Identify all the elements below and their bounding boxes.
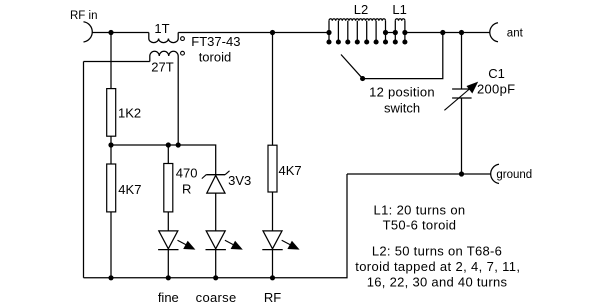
inductor L2 tapped coil: [329, 19, 386, 21]
label L2: [354, 2, 368, 17]
svg-text:16, 22, 30 and 40 turns: 16, 22, 30 and 40 turns: [367, 275, 508, 290]
junction rail LED fine: [166, 275, 171, 280]
junction middle 27T lead: [176, 142, 181, 147]
wire L1 to ant: [405, 32, 490, 34]
svg-text:toroid: toroid: [199, 50, 232, 65]
connector J3 ground: [491, 164, 499, 183]
svg-text:27T: 27T: [151, 60, 173, 75]
resistor R3 470R: [164, 145, 173, 231]
resistor R1 1K2: [107, 89, 116, 145]
svg-text:fine: fine: [158, 290, 179, 305]
junction C1 branch: [459, 30, 464, 35]
wire 4K7 RF branch down: [272, 33, 274, 146]
svg-text:T50-6 toroid: T50-6 toroid: [383, 218, 457, 233]
label C1 200pF: [477, 66, 515, 97]
svg-text:1K2: 1K2: [118, 106, 141, 121]
junction node input: [108, 30, 113, 35]
svg-text:200pF: 200pF: [477, 81, 515, 96]
wire junction down to R1: [110, 33, 112, 89]
svg-text:coarse: coarse: [196, 290, 237, 305]
switch contact tap 7: [383, 21, 388, 45]
svg-text:RF: RF: [264, 290, 281, 305]
resistor R2 4K7: [107, 145, 116, 278]
svg-text:C1: C1: [488, 66, 505, 81]
label RF in: [70, 10, 97, 22]
switch contact tap 2: [336, 21, 341, 45]
junction L1 left end: [393, 30, 398, 35]
svg-text:1T: 1T: [154, 21, 169, 36]
junction rail LED coarse: [213, 275, 218, 280]
svg-text:toroid tapped at 2, 4, 7, 11,: toroid tapped at 2, 4, 7, 11,: [355, 259, 520, 274]
label 4K7 left: [118, 182, 141, 197]
wire secondary right lead down: [177, 56, 179, 145]
wire left vertical rail: [83, 62, 85, 278]
svg-text:4K7: 4K7: [279, 163, 302, 178]
svg-text:ground: ground: [496, 169, 532, 181]
junction ground node: [459, 171, 464, 176]
labels fine coarse RF: [158, 290, 281, 305]
label 3V3: [228, 173, 251, 188]
svg-text:FT37-43: FT37-43: [191, 34, 240, 49]
svg-text:ant: ant: [507, 27, 524, 39]
svg-text:470: 470: [176, 166, 198, 181]
svg-text:12 position: 12 position: [369, 84, 435, 99]
inductor L1 coil: [395, 19, 405, 21]
label FT37-43 toroid: [191, 34, 240, 65]
svg-text:L1: L1: [392, 2, 406, 17]
label 12 position switch: [369, 84, 435, 115]
label 4K7 right: [279, 163, 302, 178]
junction L1 right end: [402, 30, 407, 35]
wire ground row: [347, 173, 491, 175]
switch contact tap 9: [402, 21, 407, 45]
junction node to 4K7 RF branch: [270, 30, 275, 35]
switch contact tap 1: [326, 21, 331, 45]
switch contact tap 3: [345, 21, 350, 45]
label 1T: [154, 21, 169, 36]
junction L2 right end: [383, 30, 388, 35]
switch contact tap 8: [393, 21, 398, 45]
switch contact tap 5: [364, 21, 369, 45]
wire secondary left lead: [84, 61, 150, 63]
svg-text:R: R: [182, 181, 191, 196]
svg-text:switch: switch: [384, 100, 420, 115]
label 27T: [151, 60, 173, 75]
wire L2 to L1: [386, 32, 396, 34]
svg-text:L2: 50 turns on T68-6: L2: 50 turns on T68-6: [372, 243, 502, 258]
junction L2 left end on wire: [326, 30, 331, 35]
svg-text:RF in: RF in: [70, 10, 97, 22]
label 470 R: [176, 166, 198, 197]
capacitor C1 variable: [444, 33, 478, 175]
switch SW1 rotor arm: [341, 55, 365, 82]
svg-text:L1: 20 turns on: L1: 20 turns on: [374, 202, 466, 217]
connector J1 RF in: [84, 22, 93, 42]
svg-text:L2: L2: [354, 2, 368, 17]
svg-text:3V3: 3V3: [228, 173, 251, 188]
label L1: [392, 2, 406, 17]
switch contact tap 6: [374, 21, 379, 45]
wire bottom rail: [84, 174, 348, 278]
label ground: [496, 169, 532, 181]
transformer T1 primary winding 1T: [149, 33, 178, 43]
wire transformer to L2: [178, 32, 329, 34]
wire switch pole: [363, 33, 443, 79]
note L2 winding: [355, 243, 520, 289]
connector J2 ant: [490, 23, 498, 42]
junction rail R2: [108, 275, 113, 280]
phase dot primary: [181, 37, 185, 41]
svg-text:4K7: 4K7: [118, 182, 141, 197]
junction middle left: [108, 142, 113, 147]
LED coarse: [206, 231, 243, 278]
wire RF in to transformer: [93, 32, 149, 34]
LED RF: [262, 231, 299, 278]
label 1K2: [118, 106, 141, 121]
switch contact tap 4: [355, 21, 360, 45]
transformer T1 secondary winding 27T: [150, 51, 178, 61]
LED fine: [158, 231, 195, 278]
label ant: [507, 27, 524, 39]
zener diode D1 3V3: [202, 171, 230, 231]
junction middle 470R branch: [166, 142, 171, 147]
junction switch pole on antenna wire: [440, 30, 445, 35]
junction rail LED RF: [270, 275, 275, 280]
resistor R4 4K7: [268, 145, 277, 231]
phase dot secondary: [181, 51, 185, 55]
note L1 winding: [374, 202, 466, 232]
wire middle bus: [111, 145, 216, 174]
